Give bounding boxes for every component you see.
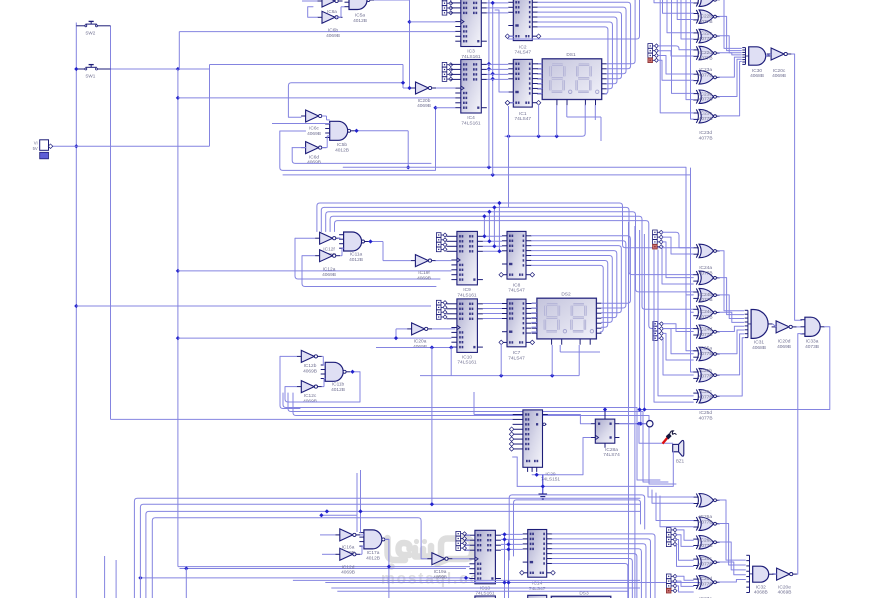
wire <box>483 250 502 252</box>
wire <box>654 250 693 402</box>
battery VI 5V <box>33 140 49 159</box>
wire <box>552 549 641 598</box>
svg-text:4077B: 4077B <box>699 332 713 338</box>
svg-text:4077B: 4077B <box>699 136 713 142</box>
wire <box>538 78 542 80</box>
wire <box>483 318 502 320</box>
wire <box>513 457 518 486</box>
wire <box>658 46 694 50</box>
svg-text:IC22d: IC22d <box>699 50 712 56</box>
wire <box>676 576 693 580</box>
wire <box>532 326 537 328</box>
svg-text:4012B: 4012B <box>349 257 363 263</box>
wire <box>338 237 341 239</box>
xnor gate IC23c 4077B <box>693 90 720 104</box>
svg-text:VI: VI <box>34 140 38 145</box>
dff IC28a 74LS74 <box>591 407 620 458</box>
wire <box>501 543 523 545</box>
wire <box>532 236 631 303</box>
display DS3 <box>546 591 616 598</box>
label IC24c <box>699 309 713 320</box>
wire <box>658 60 694 80</box>
wire <box>436 87 455 89</box>
wire <box>325 470 363 533</box>
decoder IC2 74LS47 <box>505 0 541 56</box>
wire <box>383 260 451 262</box>
inverter IC20a 4069B <box>407 323 432 350</box>
wire <box>502 532 506 598</box>
wire <box>538 17 617 84</box>
wire <box>719 580 746 582</box>
wire <box>322 356 325 386</box>
svg-text:DS1: DS1 <box>566 52 576 58</box>
svg-text:4012B: 4012B <box>331 387 345 393</box>
svg-text:4069B: 4069B <box>417 103 431 109</box>
wire <box>317 203 693 248</box>
wire <box>272 123 330 125</box>
wire <box>302 1 345 17</box>
wire <box>152 518 427 598</box>
wire <box>792 54 802 320</box>
wire <box>691 0 694 119</box>
wire <box>420 344 579 378</box>
wire <box>466 549 470 551</box>
wire <box>676 586 693 592</box>
counter IC10 74LS161 <box>446 299 483 366</box>
nand IC5a 4012B <box>345 0 375 24</box>
wire <box>104 556 106 598</box>
wire <box>322 136 330 148</box>
wire <box>658 51 694 56</box>
wire <box>667 0 693 33</box>
wire <box>552 559 632 598</box>
svg-text:IC20c: IC20c <box>773 68 786 74</box>
counter IC15 74LS161 (cut) <box>475 596 496 598</box>
svg-text:IC23b: IC23b <box>699 91 712 97</box>
wire <box>487 210 491 244</box>
wire <box>532 317 537 319</box>
wire <box>285 372 360 402</box>
svg-text:5V: 5V <box>33 146 38 151</box>
svg-text:74LS161: 74LS161 <box>457 292 477 298</box>
wire <box>676 530 693 540</box>
svg-text:4069B: 4069B <box>417 275 431 281</box>
voltage probe (red) <box>663 431 677 444</box>
pin header <box>653 230 664 249</box>
svg-text:4077B: 4077B <box>699 97 713 103</box>
display DS1 <box>537 52 607 106</box>
wire <box>452 558 470 560</box>
wire <box>325 580 700 584</box>
wire <box>337 590 628 592</box>
wire <box>532 260 608 327</box>
xnor gate IC24a 4077B <box>693 244 720 258</box>
wire <box>719 500 746 560</box>
and IC31 4068B <box>745 310 773 351</box>
wire <box>663 329 694 354</box>
wire <box>532 312 537 314</box>
wire <box>676 535 693 547</box>
wire <box>179 32 455 69</box>
wire <box>483 303 502 305</box>
svg-text:4073B: 4073B <box>805 344 819 350</box>
wire <box>146 511 640 598</box>
svg-text:4077B: 4077B <box>699 55 713 61</box>
svg-text:4069B: 4069B <box>341 570 355 576</box>
svg-text:IC5a: IC5a <box>355 13 365 19</box>
pin header <box>653 322 664 341</box>
wire <box>662 232 693 247</box>
svg-text:IC24c: IC24c <box>699 309 712 315</box>
label IC25c <box>699 389 713 400</box>
wire <box>719 0 742 48</box>
nand IC17a 4012B <box>359 530 389 561</box>
label IC24d <box>699 326 713 337</box>
wire <box>552 539 650 598</box>
wire <box>719 524 746 566</box>
svg-text:4077B: 4077B <box>699 395 713 401</box>
and IC32 4068B <box>746 555 773 595</box>
wire <box>487 73 509 75</box>
svg-text:IC26b: IC26b <box>699 538 712 544</box>
wire <box>340 248 343 256</box>
wire <box>514 500 641 556</box>
wire <box>773 324 776 327</box>
wire <box>176 69 180 567</box>
wire <box>656 493 693 521</box>
wire <box>663 333 694 360</box>
decorative watermark <box>381 538 481 588</box>
wire <box>283 173 696 372</box>
wire <box>350 370 360 374</box>
wire <box>658 56 694 75</box>
svg-text:IC24d: IC24d <box>699 326 712 332</box>
label IC26a <box>699 514 713 525</box>
wire <box>532 302 537 304</box>
xnor gate IC23b 4077B <box>693 71 720 85</box>
wire <box>652 490 693 503</box>
wire <box>719 61 742 115</box>
svg-text:74LS161: 74LS161 <box>457 360 477 366</box>
decoder IC1 74LS47 <box>505 59 541 122</box>
wire <box>326 212 694 292</box>
wire <box>501 548 523 550</box>
wire <box>302 256 436 287</box>
svg-text:IC7: IC7 <box>513 350 521 356</box>
logic probe <box>647 421 653 427</box>
wire <box>138 576 470 580</box>
svg-text:IC25b: IC25b <box>699 368 712 374</box>
wire <box>321 207 693 274</box>
nand IC5b 4012B <box>325 121 355 153</box>
svg-text:4068B: 4068B <box>750 73 764 79</box>
wire <box>719 562 746 575</box>
inverter IC20c 4069B <box>767 48 792 79</box>
wire <box>660 496 693 527</box>
inverter IC20e 4069B <box>772 568 797 596</box>
wire <box>178 337 452 339</box>
inverter IC16a <box>335 529 360 556</box>
svg-text:IC12c: IC12c <box>304 393 317 399</box>
svg-text:4012B: 4012B <box>353 18 367 24</box>
wire <box>766 54 771 56</box>
svg-text:4077B: 4077B <box>699 351 713 357</box>
inverter IC19f 4069B <box>411 255 436 282</box>
wire <box>487 63 509 65</box>
label IC25b <box>699 368 713 379</box>
svg-text:4077B: 4077B <box>699 543 713 549</box>
wire <box>773 573 776 576</box>
wire <box>532 307 537 309</box>
svg-text:IC6b: IC6b <box>328 28 338 34</box>
wire <box>532 241 626 308</box>
wire <box>538 12 622 79</box>
wire <box>538 0 635 64</box>
svg-text:IC25c: IC25c <box>699 389 712 395</box>
svg-text:IC23a: IC23a <box>699 67 712 73</box>
svg-text:4077B: 4077B <box>699 315 713 321</box>
svg-text:74LS47: 74LS47 <box>515 116 532 122</box>
wire <box>487 12 509 14</box>
wire <box>642 234 646 412</box>
wire <box>719 542 746 570</box>
label IC25d <box>699 410 713 421</box>
label IC23a <box>699 67 713 78</box>
svg-text:4069B: 4069B <box>772 73 786 79</box>
wire <box>532 331 537 333</box>
wire <box>322 116 330 120</box>
wire <box>140 504 640 598</box>
pin header <box>436 300 447 319</box>
wire <box>501 533 523 535</box>
wire <box>466 544 470 546</box>
label IC27a <box>699 596 713 598</box>
svg-text:IC32: IC32 <box>756 584 766 590</box>
wire <box>505 104 585 207</box>
svg-text:IC22b: IC22b <box>699 14 712 20</box>
pin header <box>648 44 659 63</box>
wire <box>663 324 694 332</box>
svg-text:IC6a: IC6a <box>327 9 337 14</box>
wire <box>719 278 744 315</box>
decoder IC8 74LS47 <box>499 231 535 293</box>
wire <box>501 538 523 540</box>
wire <box>385 539 391 598</box>
switch SW2 <box>76 21 110 35</box>
inverter IC20b 4069B <box>411 82 436 109</box>
svg-text:74LS151: 74LS151 <box>541 477 561 483</box>
svg-text:4069B: 4069B <box>326 33 340 39</box>
svg-text:IC30: IC30 <box>752 68 762 74</box>
wire <box>538 83 542 85</box>
wire <box>293 393 676 484</box>
svg-text:4069B: 4069B <box>303 368 317 374</box>
wire <box>719 16 742 50</box>
label IC26d <box>699 576 713 587</box>
wire <box>506 539 510 598</box>
inverter IC19a 4069B <box>427 553 452 581</box>
wire <box>532 321 537 323</box>
xnor gate IC26a 4077B <box>693 494 720 508</box>
wire <box>492 205 496 248</box>
wire <box>538 22 613 89</box>
wire <box>209 65 211 147</box>
wire <box>532 265 604 332</box>
svg-text:IC25d: IC25d <box>699 410 712 416</box>
mux IC29 74LS151 <box>513 410 561 483</box>
inverter IC6c <box>301 110 326 137</box>
inverter IC20d 4069B <box>772 321 797 350</box>
svg-text:SW2: SW2 <box>85 30 95 35</box>
svg-text:IC1: IC1 <box>519 111 527 117</box>
wire <box>509 495 645 560</box>
svg-text:4077B: 4077B <box>699 270 713 276</box>
label IC23c <box>699 111 713 122</box>
wire <box>538 2 631 69</box>
wire <box>538 92 542 94</box>
counter IC4 74LS161 <box>450 60 487 127</box>
wire <box>658 250 693 396</box>
wire <box>639 327 830 426</box>
pin header <box>442 62 453 81</box>
wire <box>672 0 694 93</box>
svg-text:IC5b: IC5b <box>337 142 347 148</box>
wire <box>491 1 495 175</box>
svg-text:4068B: 4068B <box>752 345 766 351</box>
wire <box>538 68 542 70</box>
wire <box>719 338 744 396</box>
wire <box>450 348 452 376</box>
wire <box>532 438 591 477</box>
wire <box>719 334 744 375</box>
svg-text:74LS47: 74LS47 <box>508 355 525 361</box>
svg-text:74LS74: 74LS74 <box>603 452 620 458</box>
wire <box>483 240 502 242</box>
svg-text:4068B: 4068B <box>754 590 768 596</box>
label IC25a <box>699 346 713 357</box>
wire <box>115 560 117 598</box>
xnor gate IC25a 4077B <box>693 325 720 339</box>
wire <box>654 0 693 3</box>
wire <box>335 221 694 329</box>
inverter IC12d <box>335 548 360 575</box>
wire <box>719 59 742 96</box>
svg-text:4069B: 4069B <box>778 590 792 596</box>
wire <box>178 566 470 568</box>
wire <box>283 393 660 480</box>
xnor gate IC23a 4077B <box>693 46 720 60</box>
svg-text:IC24b: IC24b <box>699 292 712 298</box>
inverter IC6a <box>318 0 343 14</box>
svg-text:IC25a: IC25a <box>699 346 712 352</box>
svg-text:IC20d: IC20d <box>778 338 791 344</box>
svg-text:74LS47: 74LS47 <box>508 288 525 294</box>
ground <box>539 475 548 500</box>
wire <box>532 246 622 313</box>
wire <box>560 345 600 352</box>
svg-text:IC4: IC4 <box>467 115 475 121</box>
xnor gate IC22b 4077B <box>693 0 720 7</box>
wire <box>178 270 452 272</box>
wire <box>295 238 315 256</box>
svg-text:IC19f: IC19f <box>418 270 430 276</box>
wire <box>662 237 693 254</box>
wire <box>691 168 694 312</box>
svg-text:IC26d: IC26d <box>699 576 712 582</box>
wire <box>538 73 542 75</box>
wire <box>319 473 357 532</box>
wire <box>483 308 502 310</box>
wire <box>293 579 640 581</box>
wire <box>538 7 626 74</box>
svg-text:IC23d: IC23d <box>699 130 712 136</box>
wire <box>74 23 78 598</box>
svg-text:IC10: IC10 <box>462 354 472 360</box>
svg-text:IC12b: IC12b <box>304 363 317 369</box>
svg-text:4069B: 4069B <box>777 344 791 350</box>
svg-text:IC19a: IC19a <box>434 569 447 575</box>
label IC26c <box>699 556 713 567</box>
label IC22b <box>699 14 713 25</box>
svg-text:4077B: 4077B <box>699 582 713 588</box>
pin header <box>456 531 467 550</box>
xnor gate IC23d 4077B <box>693 109 720 123</box>
wire <box>663 0 694 13</box>
wire <box>676 544 693 566</box>
svg-text:IC9: IC9 <box>463 287 471 293</box>
xnor gate IC27a 4077B <box>693 576 720 590</box>
pin header <box>666 528 677 547</box>
wire <box>320 535 335 554</box>
svg-text:IC20a: IC20a <box>414 339 427 345</box>
svg-text:IC33a: IC33a <box>806 338 819 344</box>
svg-text:4077B: 4077B <box>699 562 713 568</box>
label IC24b <box>699 292 713 303</box>
svg-text:4077B: 4077B <box>699 36 713 42</box>
svg-text:IC14: IC14 <box>532 581 542 587</box>
wire <box>483 245 502 247</box>
svg-text:4077B: 4077B <box>699 520 713 526</box>
svg-text:4069B: 4069B <box>307 131 321 137</box>
wire <box>487 0 491 167</box>
svg-text:BZ1: BZ1 <box>676 458 685 463</box>
label IC23b <box>699 91 713 102</box>
svg-text:IC26c: IC26c <box>699 556 712 562</box>
svg-text:IC17a: IC17a <box>367 550 380 556</box>
wire <box>538 27 608 94</box>
label IC26b <box>699 538 713 549</box>
wire <box>797 334 802 574</box>
counter IC9 74LS161 <box>446 231 483 298</box>
wire <box>676 581 693 586</box>
wire <box>180 566 467 570</box>
svg-text:IC6d: IC6d <box>309 154 319 160</box>
wire <box>487 7 509 9</box>
svg-text:IC28a: IC28a <box>605 447 618 453</box>
wire <box>185 569 187 598</box>
decoder IC14 74LS47 <box>520 530 556 593</box>
wire <box>134 498 640 598</box>
wire <box>505 100 513 105</box>
wire <box>719 326 744 331</box>
wire <box>280 106 456 171</box>
xnor gate IC25d 4077B <box>693 390 720 404</box>
nand IC11b 4012B <box>321 362 351 393</box>
svg-text:4077B: 4077B <box>699 116 713 122</box>
wire <box>483 313 502 315</box>
xnor gate IC26c 4077B <box>693 536 720 550</box>
wire <box>474 392 513 415</box>
